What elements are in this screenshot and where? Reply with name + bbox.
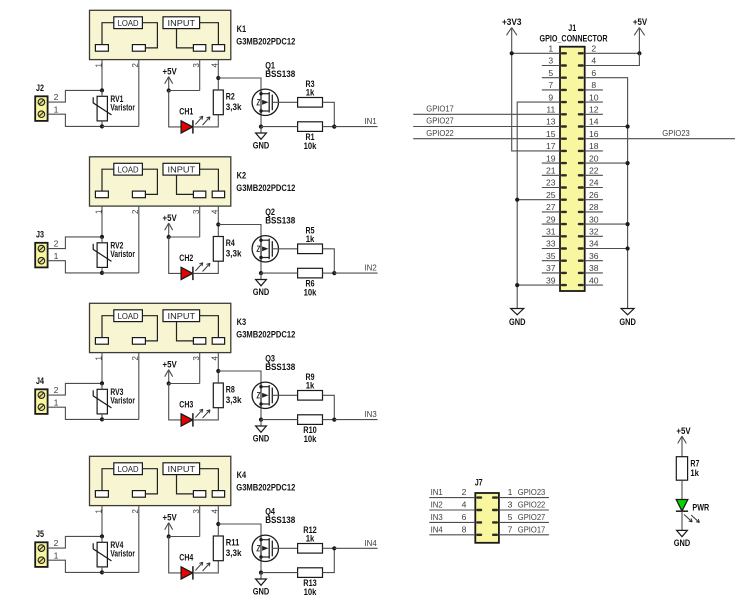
- svg-text:8: 8: [462, 524, 467, 534]
- svg-text:GND: GND: [674, 538, 691, 548]
- connector J1 pin 28: [578, 211, 584, 213]
- svg-text:J3: J3: [36, 229, 44, 239]
- wire J1 pin1 to +3V3: [512, 52, 560, 54]
- resistor R12 1k: [298, 544, 323, 554]
- svg-text:GPIO17: GPIO17: [518, 524, 546, 534]
- relay K2 INPUT box: [163, 163, 200, 175]
- svg-text:R7: R7: [690, 458, 699, 468]
- transistor Q2 BSS138: [252, 236, 278, 262]
- wire R2 top: [217, 78, 219, 90]
- ground J1 left GND: [511, 309, 524, 315]
- svg-text:K1: K1: [237, 24, 247, 34]
- svg-text:3,3k: 3,3k: [226, 395, 242, 405]
- resistor R3 1k: [298, 98, 323, 108]
- svg-text:14: 14: [589, 117, 599, 127]
- wire J1 pin25 to GND rail: [517, 199, 560, 201]
- svg-text:PWR: PWR: [692, 502, 709, 512]
- svg-text:Varistor: Varistor: [110, 103, 135, 113]
- wire net GPIO17 J1 pin11: [413, 113, 560, 115]
- LED PWR green: [676, 500, 688, 512]
- varistor RV2: [97, 243, 107, 268]
- connector J1 pin 22: [578, 174, 584, 176]
- connector J1 pin 31: [561, 235, 567, 237]
- node right GND rail pin30 junction: [626, 222, 630, 226]
- wire J3 pin1: [48, 261, 102, 273]
- svg-text:R11: R11: [226, 537, 240, 547]
- node +3V3 pin1 junction: [510, 51, 514, 55]
- svg-text:1: 1: [54, 251, 59, 261]
- relay K3 INPUT box: [163, 310, 200, 322]
- node Q4 source junction: [259, 571, 263, 575]
- svg-text:9: 9: [548, 92, 553, 102]
- svg-text:39: 39: [546, 275, 556, 285]
- wire R11 top: [217, 524, 219, 536]
- wire Q4 source to GND node: [260, 561, 262, 572]
- node RV3 bottom junction: [100, 417, 104, 421]
- svg-text:CH2: CH2: [179, 253, 193, 263]
- wire Q2 gate to R5: [272, 248, 297, 250]
- svg-text:3,3k: 3,3k: [226, 102, 242, 112]
- relay K1 body: [90, 10, 231, 59]
- node RV2 bottom junction: [100, 271, 104, 275]
- wire GND node to R13: [261, 572, 298, 574]
- relay K4 LOAD box: [114, 463, 143, 475]
- connector J1 pin 27: [561, 211, 567, 213]
- svg-text:6: 6: [462, 512, 467, 522]
- svg-text:LOAD: LOAD: [118, 465, 139, 474]
- svg-text:28: 28: [589, 202, 599, 212]
- connector J1 pin 5: [561, 77, 567, 79]
- svg-text:GND: GND: [253, 587, 270, 597]
- LED CH2: [181, 267, 193, 279]
- wire +5V down to LED CH3: [169, 384, 181, 420]
- wire net GPIO17 J7 pin7: [499, 534, 549, 536]
- svg-text:10k: 10k: [304, 587, 317, 597]
- connector J1 pin 4: [578, 64, 584, 66]
- wire R9 to IN3 node: [323, 395, 335, 419]
- svg-text:R2: R2: [226, 91, 235, 101]
- wire K1 pin1: [101, 60, 103, 91]
- node Q2 source junction: [259, 271, 263, 275]
- wire +5V down to LED CH2: [169, 237, 181, 273]
- wire +5V to K4 pin3: [169, 536, 200, 538]
- node K1 pin1 junction: [100, 88, 104, 92]
- transistor Q1 BSS138: [252, 89, 278, 115]
- connector J1 GPIO_CONNECTOR body: [560, 47, 585, 291]
- node Q3 source junction: [259, 418, 263, 422]
- svg-text:IN2: IN2: [365, 263, 377, 273]
- ground K4 GND: [260, 573, 262, 579]
- connector J7 body: [475, 493, 499, 543]
- wire Q1 source to GND node: [260, 115, 262, 126]
- connector J2: [35, 96, 47, 121]
- wire LED CH3 to R8: [193, 408, 218, 420]
- svg-text:BSS138: BSS138: [265, 362, 295, 372]
- svg-text:BSS138: BSS138: [265, 216, 295, 226]
- svg-text:29: 29: [546, 214, 556, 224]
- svg-text:GPIO27: GPIO27: [518, 512, 546, 522]
- svg-text:18: 18: [589, 141, 599, 151]
- svg-text:27: 27: [546, 202, 556, 212]
- connector J1 pin 39: [561, 284, 567, 286]
- wire net GPIO22 J7 pin3: [499, 509, 549, 511]
- connector J1 pin 30: [578, 223, 584, 225]
- ground PWR GND: [677, 530, 688, 536]
- wire +5V to K2 pin3: [169, 236, 200, 238]
- wire R1 to IN1 node: [323, 126, 335, 128]
- wire J1 pin14 to right GND rail: [585, 126, 628, 128]
- svg-text:LOAD: LOAD: [118, 312, 139, 321]
- resistor R1 10k: [298, 122, 323, 132]
- wire +5V to J1 pin4: [585, 53, 640, 65]
- wire R3 to IN1 node: [323, 102, 335, 126]
- svg-text:1k: 1k: [306, 234, 315, 244]
- wire RV1 bottom to K1 pin2: [102, 125, 139, 127]
- connector J1 pin 34: [578, 247, 584, 249]
- relay K4 pin pads: [95, 491, 108, 498]
- wire +5V to K1 pin3: [169, 90, 200, 92]
- svg-text:GPIO27: GPIO27: [426, 116, 454, 126]
- svg-text:INPUT: INPUT: [168, 312, 196, 321]
- wire K1 pin2: [138, 60, 140, 127]
- wire K2 pin4: [217, 206, 219, 224]
- node K1 pin4 junction: [216, 76, 220, 80]
- wire net IN3 J7 pin6: [429, 521, 475, 523]
- wire K3 pin4: [217, 353, 219, 371]
- connector J1 pin 25: [561, 199, 567, 201]
- svg-text:1: 1: [54, 550, 59, 560]
- svg-text:+5V: +5V: [163, 213, 177, 223]
- wire K2 pin2: [138, 206, 140, 273]
- connector J1 pin 29: [561, 223, 567, 225]
- wire RV2 bottom to K2 pin2: [102, 272, 139, 274]
- wire J4 pin1: [48, 407, 102, 419]
- wire J4 pin2: [48, 383, 102, 395]
- resistor R6 10k: [298, 268, 323, 278]
- svg-text:4: 4: [591, 56, 596, 66]
- connector J7 row pins 4|3: [476, 509, 482, 511]
- wire R6 to IN2 node: [323, 272, 335, 274]
- node +5V pin2 junction: [637, 51, 641, 55]
- svg-text:32: 32: [589, 227, 599, 237]
- svg-text:1: 1: [54, 104, 59, 114]
- wire net IN2 J7 pin4: [429, 509, 475, 511]
- svg-text:J7: J7: [475, 478, 483, 488]
- svg-text:36: 36: [589, 251, 599, 261]
- ground K2 GND: [260, 273, 262, 279]
- connector J1 pin 6: [578, 77, 584, 79]
- relay K3 LOAD box: [114, 310, 143, 322]
- node IN2 junction: [332, 271, 336, 275]
- wire pin4 node to Q4 drain: [218, 524, 261, 535]
- wire R13 to IN4 node: [323, 548, 335, 572]
- resistor R8 3,3k: [213, 383, 223, 408]
- connector J1 pin 33: [561, 247, 567, 249]
- svg-text:4: 4: [462, 500, 467, 510]
- wire net GPIO22 J1 pin15: [413, 138, 560, 140]
- svg-text:2: 2: [54, 385, 59, 395]
- svg-text:2: 2: [54, 92, 59, 102]
- svg-text:GPIO23: GPIO23: [518, 487, 546, 497]
- connector J4: [35, 389, 47, 414]
- connector J1 pin 38: [578, 272, 584, 274]
- svg-text:8: 8: [591, 80, 596, 90]
- connector J1 pin 40: [578, 284, 584, 286]
- svg-text:R8: R8: [226, 384, 235, 394]
- wire +5V to K3 pin3: [169, 383, 200, 385]
- svg-text:1k: 1k: [306, 533, 315, 543]
- svg-text:3: 3: [548, 56, 553, 66]
- wire net GPIO23 J1 pin16: [585, 138, 735, 140]
- wire K2 pin1: [101, 206, 103, 237]
- ground J1 right GND: [621, 309, 634, 315]
- resistor R10 10k: [298, 415, 323, 425]
- wire K3 pin3: [199, 353, 201, 384]
- svg-text:IN1: IN1: [365, 116, 377, 126]
- connector J1 pin 35: [561, 260, 567, 262]
- wire Q4 gate to R12: [272, 547, 297, 549]
- svg-text:2: 2: [591, 44, 596, 54]
- resistor R9 1k: [298, 391, 323, 401]
- wire K2 pin3: [199, 206, 201, 237]
- svg-text:30: 30: [589, 214, 599, 224]
- resistor R11 3,3k: [213, 536, 223, 561]
- wire RV4 bottom to K4 pin2: [102, 571, 139, 573]
- node IN4 junction: [332, 546, 336, 550]
- connector J1 pin 7: [561, 89, 567, 91]
- wire net GPIO27 J7 pin5: [499, 521, 549, 523]
- LED CH1: [181, 121, 193, 133]
- wire pin4 node to Q3 drain: [218, 371, 261, 382]
- wire K4 pin2: [138, 506, 140, 573]
- node RV4 bottom junction: [100, 570, 104, 574]
- relay K1 pin pads: [95, 45, 108, 52]
- connector J1 pin 12: [578, 113, 584, 115]
- svg-text:J2: J2: [36, 83, 44, 93]
- connector J1 pin 8: [578, 89, 584, 91]
- ground K1 GND: [260, 127, 262, 133]
- svg-text:10: 10: [589, 92, 599, 102]
- svg-text:1: 1: [54, 397, 59, 407]
- svg-text:24: 24: [589, 178, 599, 188]
- svg-text:IN3: IN3: [365, 409, 377, 419]
- relay K2 LOAD box: [114, 163, 143, 175]
- connector J3: [35, 243, 47, 268]
- svg-text:BSS138: BSS138: [265, 515, 295, 525]
- svg-text:10k: 10k: [304, 287, 317, 297]
- node K2 pin1 junction: [100, 235, 104, 239]
- varistor RV3: [97, 389, 107, 414]
- wire Q3 source to GND node: [260, 408, 262, 419]
- transistor Q3 BSS138: [252, 382, 278, 408]
- relay K3 internal wires: [102, 316, 114, 338]
- svg-text:35: 35: [546, 251, 556, 261]
- svg-text:G3MB202PDC12: G3MB202PDC12: [236, 482, 295, 492]
- wire J1 pin20 to right GND rail: [585, 162, 628, 164]
- relay K1 internal wires: [102, 23, 114, 45]
- wire net IN2: [334, 272, 377, 274]
- node right GND rail pin34 junction: [626, 246, 630, 250]
- wire net GPIO27 J1 pin13: [413, 126, 560, 128]
- connector J7 row pins 8|7: [476, 534, 482, 536]
- node Q1 source junction: [259, 125, 263, 129]
- svg-text:INPUT: INPUT: [168, 465, 196, 474]
- wire LED CH2 to R4: [193, 261, 218, 273]
- svg-text:LOAD: LOAD: [118, 19, 139, 28]
- wire RV3 bottom to K3 pin2: [102, 418, 139, 420]
- svg-text:37: 37: [546, 263, 556, 273]
- resistor R4 3,3k: [213, 237, 223, 262]
- node RV1 bottom junction: [100, 124, 104, 128]
- connector J1 pin 11: [561, 113, 567, 115]
- resistor R7 1k: [676, 457, 687, 481]
- connector J7 row pins 6|5: [476, 521, 482, 523]
- svg-text:GND: GND: [509, 317, 526, 327]
- svg-text:GPIO22: GPIO22: [426, 128, 454, 138]
- svg-text:38: 38: [589, 263, 599, 273]
- wire net IN4 J7 pin8: [429, 534, 475, 536]
- wire J1 pin2 to +5V: [585, 52, 640, 54]
- svg-text:GPIO22: GPIO22: [518, 500, 546, 510]
- svg-text:23: 23: [546, 178, 556, 188]
- svg-text:K3: K3: [237, 317, 247, 327]
- connector J1 pin 37: [561, 272, 567, 274]
- svg-text:13: 13: [546, 117, 556, 127]
- svg-text:IN2: IN2: [431, 500, 443, 510]
- wire LED CH4 to R11: [193, 561, 218, 573]
- svg-text:LOAD: LOAD: [118, 165, 139, 174]
- wire net IN3: [334, 419, 377, 421]
- connector J1 pin 32: [578, 235, 584, 237]
- wire R4 top: [217, 225, 219, 237]
- svg-text:11: 11: [546, 105, 555, 115]
- wire K1 pin3: [199, 60, 201, 91]
- connector J1 pin 20: [578, 162, 584, 164]
- svg-text:3: 3: [508, 500, 513, 510]
- svg-text:1: 1: [548, 44, 553, 54]
- wire K3 pin1: [101, 353, 103, 384]
- node K3 pin1 junction: [100, 381, 104, 385]
- connector J1 pin 3: [561, 64, 567, 66]
- svg-text:+5V: +5V: [163, 360, 177, 370]
- wire GND node to R10: [261, 419, 298, 421]
- wire J2 pin2: [48, 90, 102, 102]
- wire GND node to R6: [261, 272, 298, 274]
- svg-text:+5V: +5V: [676, 426, 690, 436]
- node right GND rail pin14 junction: [626, 124, 630, 128]
- node IN3 junction: [332, 418, 336, 422]
- svg-text:J4: J4: [36, 376, 44, 386]
- svg-text:19: 19: [546, 153, 556, 163]
- svg-text:GPIO23: GPIO23: [662, 128, 690, 138]
- wire J1 right GND rail pins 6-14-20-30-34: [585, 78, 628, 309]
- varistor RV1: [97, 96, 107, 121]
- svg-text:21: 21: [546, 166, 556, 176]
- relay K1 LOAD box: [114, 17, 143, 29]
- resistor R5 1k: [298, 244, 323, 254]
- wire R7 to LED PWR: [681, 480, 683, 499]
- svg-text:17: 17: [546, 141, 556, 151]
- wire K4 pin1: [101, 506, 103, 537]
- relay K2 pin pads: [95, 191, 108, 198]
- svg-text:20: 20: [589, 153, 599, 163]
- svg-text:15: 15: [546, 129, 556, 139]
- svg-text:+5V: +5V: [163, 513, 177, 523]
- wire R12 to IN4 node: [323, 547, 335, 549]
- svg-text:26: 26: [589, 190, 599, 200]
- svg-text:INPUT: INPUT: [168, 165, 196, 174]
- svg-text:CH3: CH3: [179, 400, 193, 410]
- svg-text:10k: 10k: [304, 141, 317, 151]
- svg-text:2: 2: [54, 239, 59, 249]
- svg-text:CH1: CH1: [179, 107, 193, 117]
- node K4 pin4 junction: [216, 522, 220, 526]
- connector J1 pin 9: [561, 101, 567, 103]
- svg-text:IN3: IN3: [431, 512, 443, 522]
- wire J5 pin1: [48, 560, 102, 572]
- wire J3 pin2: [48, 237, 102, 249]
- wire J5 pin2: [48, 536, 102, 548]
- connector J1 pin 23: [561, 186, 567, 188]
- svg-text:33: 33: [546, 239, 556, 249]
- svg-text:+3V3: +3V3: [502, 17, 522, 27]
- node GND rail pin39 junction: [515, 283, 519, 287]
- svg-text:5: 5: [508, 512, 513, 522]
- wire R10 to IN3 node: [323, 419, 335, 421]
- svg-text:Varistor: Varistor: [110, 396, 135, 406]
- connector J7 row pins 2|1: [476, 496, 482, 498]
- svg-text:7: 7: [508, 524, 513, 534]
- wire GND node to R1: [261, 126, 298, 128]
- svg-text:G3MB202PDC12: G3MB202PDC12: [236, 36, 295, 46]
- connector J1 pin 2: [578, 52, 584, 54]
- wire net IN1: [334, 126, 377, 128]
- svg-text:34: 34: [589, 239, 599, 249]
- connector J1 pin 19: [561, 162, 567, 164]
- ground K3 GND: [260, 420, 262, 426]
- svg-text:K2: K2: [237, 171, 247, 181]
- LED CH4: [181, 567, 193, 579]
- svg-text:J1: J1: [568, 23, 576, 33]
- svg-text:5: 5: [548, 68, 553, 78]
- svg-text:7: 7: [548, 80, 553, 90]
- svg-text:10k: 10k: [304, 434, 317, 444]
- connector J1 pin 10: [578, 101, 584, 103]
- svg-text:1k: 1k: [306, 87, 315, 97]
- svg-text:16: 16: [589, 129, 599, 139]
- LED CH3: [181, 414, 193, 426]
- wire LED CH1 to R2: [193, 115, 218, 127]
- connector J1 pin 14: [578, 125, 584, 127]
- svg-text:22: 22: [589, 166, 599, 176]
- svg-text:1k: 1k: [306, 380, 315, 390]
- svg-text:GPIO_CONNECTOR: GPIO_CONNECTOR: [540, 33, 609, 43]
- wire LED PWR to GND: [681, 511, 683, 530]
- wire +5V down to LED CH4: [169, 537, 181, 573]
- svg-text:GND: GND: [619, 317, 636, 327]
- svg-text:+5V: +5V: [163, 67, 177, 77]
- svg-text:G3MB202PDC12: G3MB202PDC12: [236, 329, 295, 339]
- svg-text:J5: J5: [36, 529, 44, 539]
- wire pin4 node to Q1 drain: [218, 78, 261, 89]
- connector J1 pin 24: [578, 186, 584, 188]
- wire Q2 source to GND node: [260, 262, 262, 273]
- wire Q3 gate to R9: [272, 394, 297, 396]
- wire R5 to IN2 node: [323, 249, 335, 273]
- wire net IN1 J7 pin2: [429, 497, 475, 499]
- svg-text:2: 2: [54, 538, 59, 548]
- wire Q1 gate to R3: [272, 101, 297, 103]
